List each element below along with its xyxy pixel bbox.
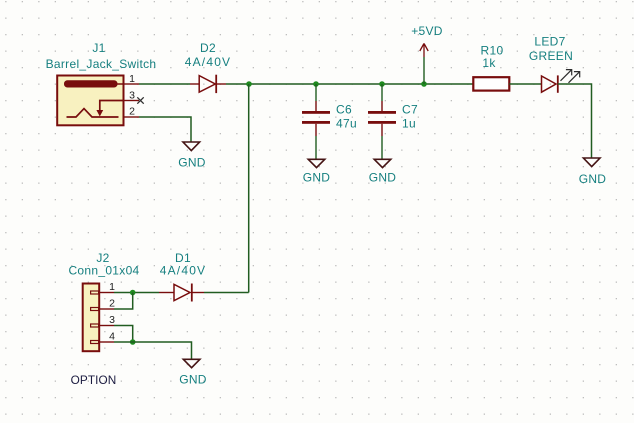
svg-text:GND: GND [579, 172, 607, 186]
J1 pin 2 [124, 106, 140, 118]
svg-text:Barrel_Jack_Switch: Barrel_Jack_Switch [46, 57, 157, 71]
J2 pin 2 [91, 298, 115, 311]
junction at C6 [313, 81, 319, 87]
resistor R10 [473, 77, 509, 90]
svg-text:C6: C6 [336, 103, 352, 117]
diode D1 [159, 284, 204, 302]
ground under J2 [183, 359, 200, 367]
svg-text:4: 4 [109, 331, 115, 343]
diode D2 [190, 75, 226, 93]
wire J2 pin4 to ground [114, 342, 192, 359]
J1 pin 3 [124, 90, 140, 102]
svg-text:GND: GND [303, 171, 331, 185]
ground under J1 pin 2 [183, 142, 200, 151]
svg-text:4A/40V: 4A/40V [160, 264, 207, 278]
svg-text:GND: GND [369, 171, 397, 185]
svg-text:LED7: LED7 [534, 35, 565, 49]
svg-text:D2: D2 [200, 41, 216, 55]
svg-text:GREEN: GREEN [529, 49, 573, 63]
svg-text:2: 2 [129, 106, 135, 118]
connector J1 body [57, 76, 123, 126]
ground under LED7 [583, 158, 600, 167]
connector J2 body [83, 284, 100, 352]
junction at +5VD [421, 81, 427, 87]
svg-text:3: 3 [129, 90, 135, 102]
J1 barrel bar [64, 80, 124, 87]
LED LED7 [542, 70, 580, 93]
svg-text:1k: 1k [482, 56, 496, 70]
svg-text:+5VD: +5VD [411, 24, 443, 38]
no-connect X on J1 pin 3 [137, 97, 143, 103]
svg-text:1: 1 [129, 73, 135, 85]
svg-text:47u: 47u [336, 117, 357, 131]
ground under C6 [308, 159, 325, 167]
wire junction down to D1 output (vertical riser) [248, 84, 250, 293]
wire LED7 to ground [558, 84, 592, 158]
capacitor C6 [302, 84, 330, 159]
svg-text:2: 2 [109, 298, 115, 310]
svg-text:GND: GND [179, 373, 207, 387]
svg-text:Conn_01x04: Conn_01x04 [68, 264, 139, 278]
wire J2 pin1 to D1 [114, 292, 159, 294]
svg-text:J1: J1 [92, 41, 105, 55]
junction at C7 [379, 81, 385, 87]
junction at J2 pin 4 [130, 339, 136, 345]
wire J2 pin2 up to pin1 junction [114, 293, 133, 310]
wire R10 to LED7 [509, 83, 541, 85]
svg-text:1u: 1u [402, 117, 416, 131]
junction node at D2 output [246, 81, 252, 87]
power symbol +5VD [420, 44, 428, 85]
wire J1 pin1 to D2 [139, 83, 190, 85]
svg-text:4A/40V: 4A/40V [185, 55, 232, 69]
ground under C7 [374, 159, 391, 167]
wire D1 to riser [204, 292, 249, 294]
J1 switch symbol [67, 109, 119, 117]
svg-text:3: 3 [109, 314, 115, 326]
svg-text:1: 1 [109, 281, 115, 293]
capacitor C7 [368, 84, 396, 159]
J1 switch arrow from pin 3 [96, 101, 123, 117]
wire J2 pin3 down to pin4 junction [114, 326, 133, 343]
J2 pin 3 [91, 314, 115, 327]
J1 pin 1 [124, 73, 140, 85]
J2 pin 1 [91, 281, 115, 294]
wire main bus D2 to R10 [226, 83, 473, 85]
svg-text:OPTION: OPTION [71, 373, 117, 387]
junction at J2 pin 1 [130, 290, 136, 296]
J2 pin 4 [91, 331, 115, 344]
svg-text:C7: C7 [402, 103, 418, 117]
svg-text:GND: GND [178, 156, 206, 170]
wire J1 pin2 to ground [139, 117, 191, 142]
